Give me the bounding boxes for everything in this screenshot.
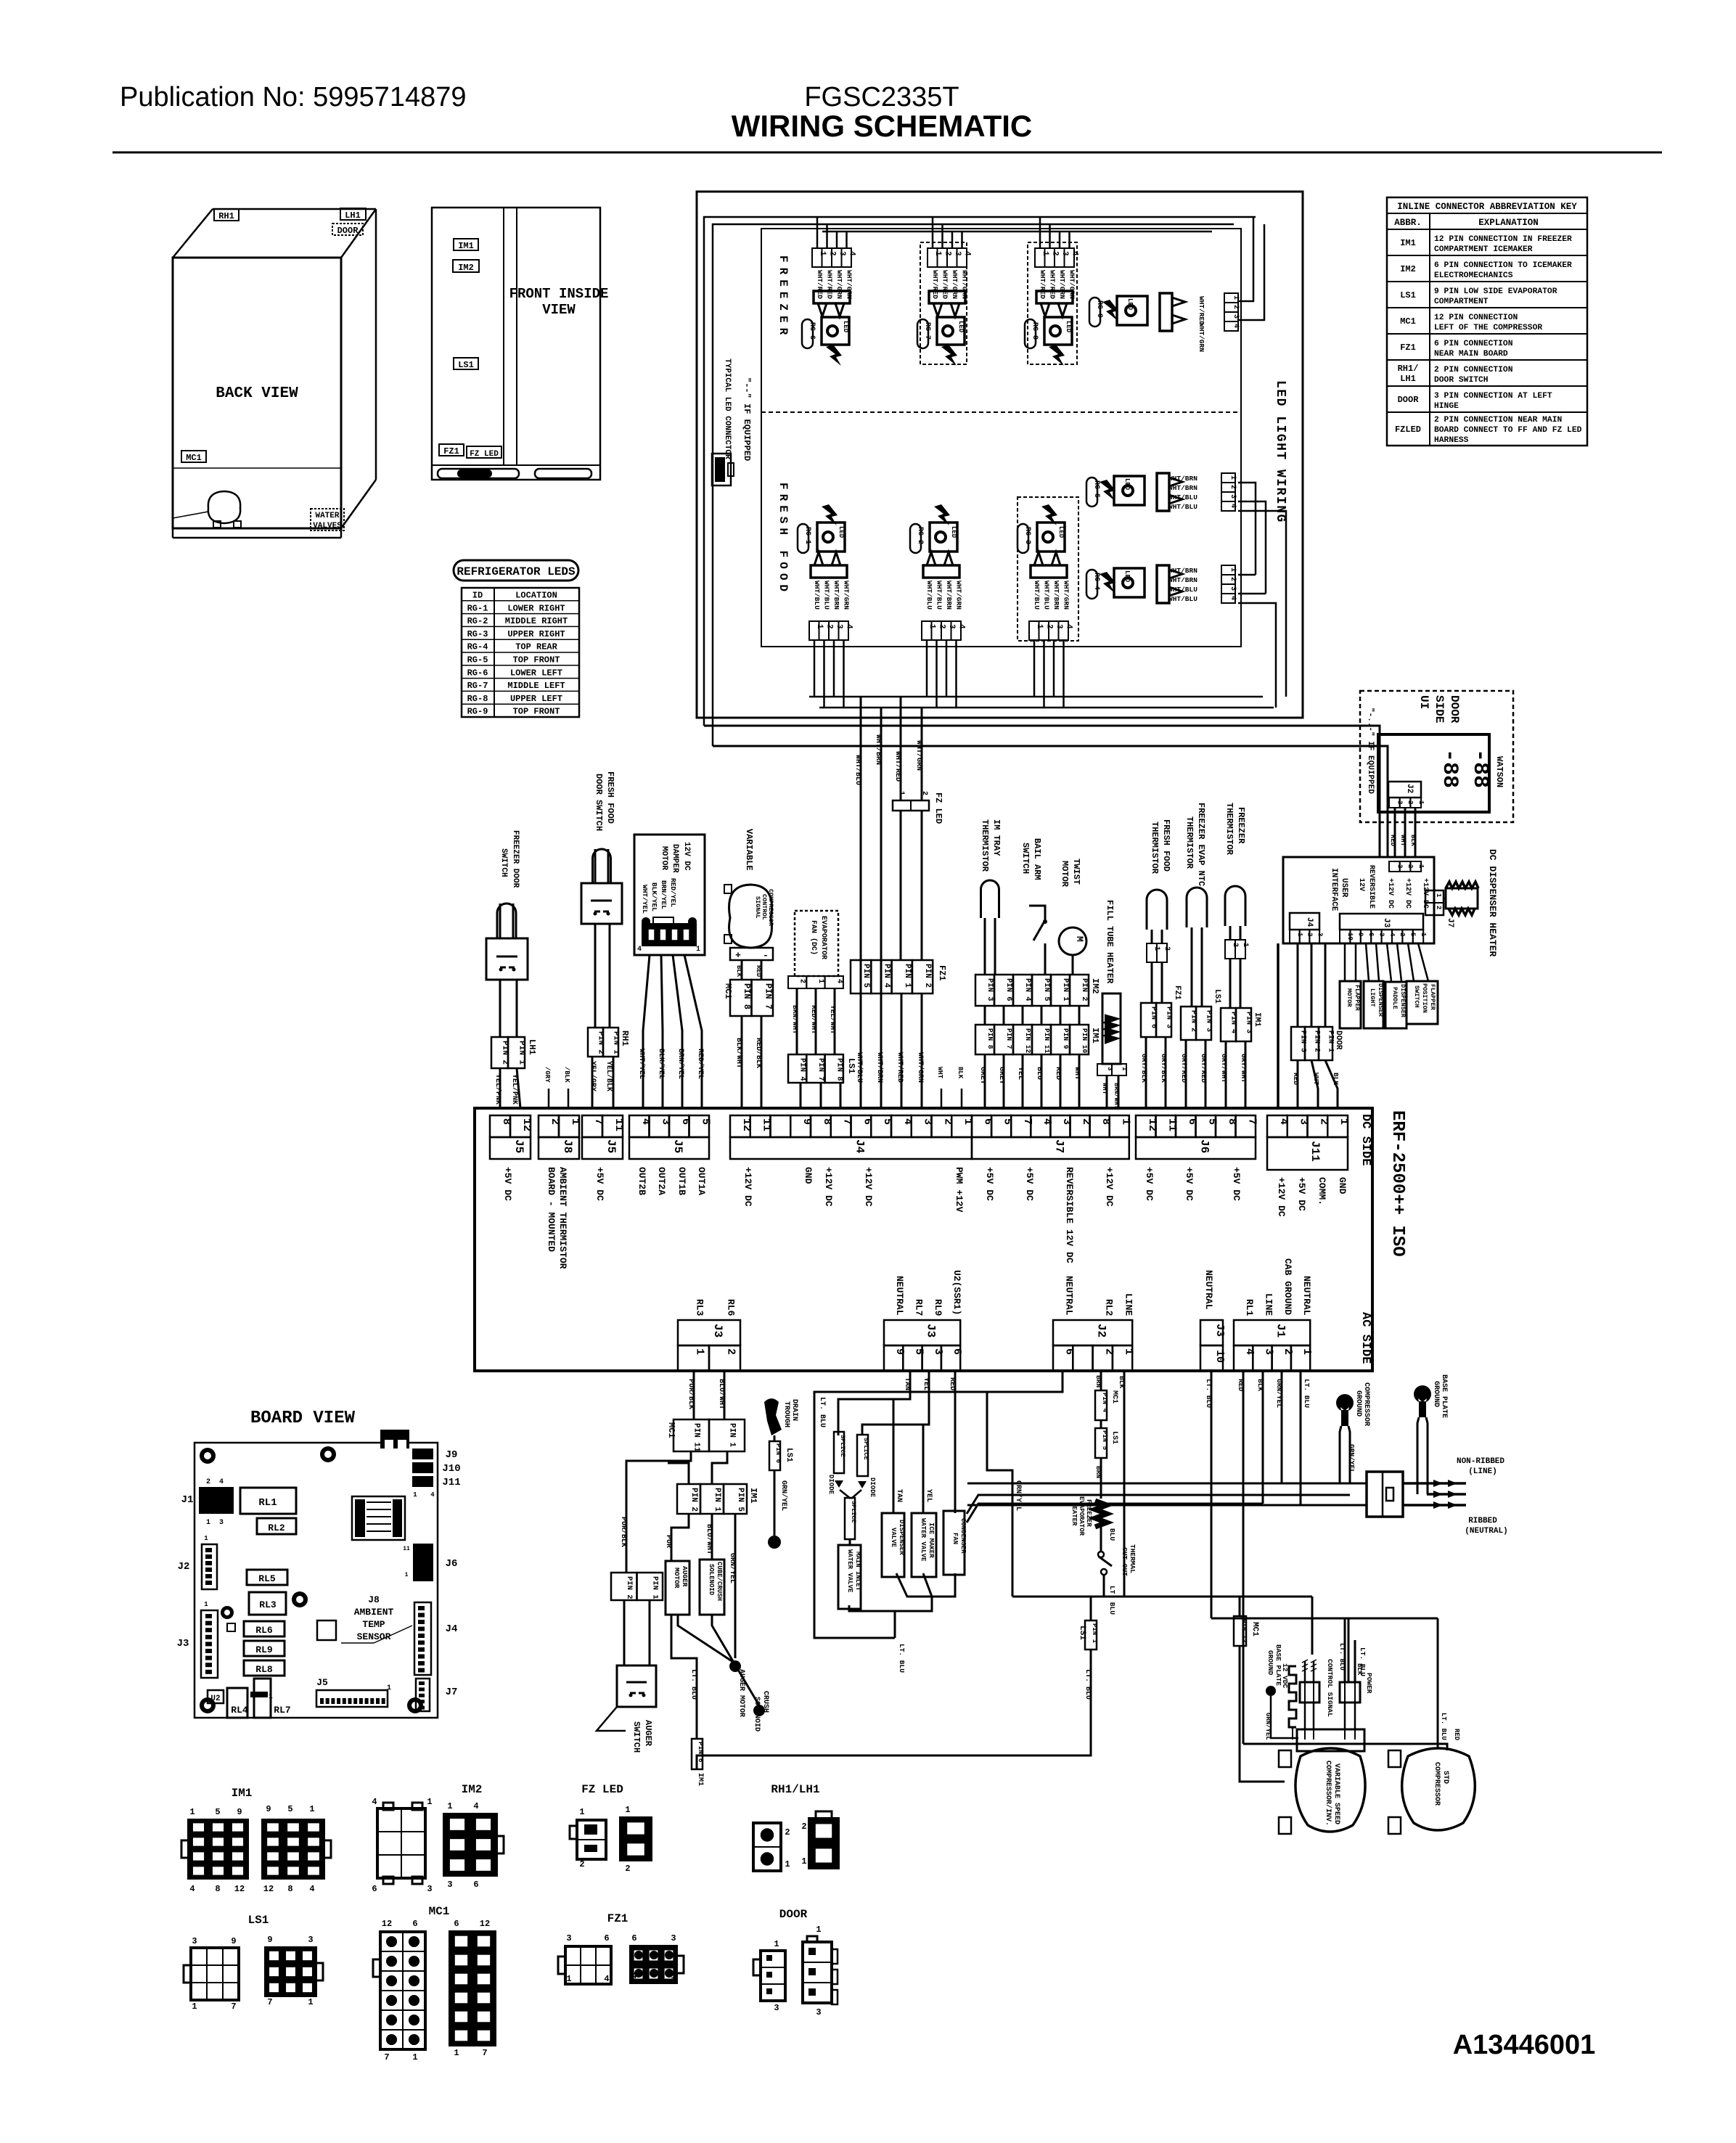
svg-text:SOLENOID: SOLENOID bbox=[753, 1697, 761, 1732]
svg-text:INTERFACE: INTERFACE bbox=[1330, 868, 1338, 911]
svg-text:FREEZER DOOR: FREEZER DOOR bbox=[511, 830, 520, 888]
svg-text:RH1: RH1 bbox=[218, 211, 234, 221]
svg-text:WHT/BLU: WHT/BLU bbox=[823, 581, 831, 610]
svg-text:WHT/GRN: WHT/GRN bbox=[1063, 581, 1070, 610]
wire MC1 pin11 to auger pins bbox=[626, 1451, 691, 1573]
svg-text:7: 7 bbox=[1245, 1118, 1258, 1125]
svg-text:A13446001: A13446001 bbox=[1453, 2030, 1596, 2060]
svg-text:4: 4 bbox=[1070, 251, 1078, 256]
auger motor terminal bbox=[678, 1615, 735, 1663]
svg-text:PUR: PUR bbox=[664, 1535, 672, 1548]
RG-1 label oval bbox=[798, 524, 808, 553]
svg-text:WHT/BLU: WHT/BLU bbox=[855, 1052, 864, 1083]
svg-text:1: 1 bbox=[569, 1118, 581, 1125]
led wiring top bus bbox=[802, 216, 1256, 218]
compressor ground bbox=[1336, 1394, 1354, 1411]
svg-text:+5V DC: +5V DC bbox=[594, 1167, 605, 1201]
svg-text:GRY/RED: GRY/RED bbox=[1200, 1054, 1208, 1083]
U2 bbox=[208, 1690, 224, 1703]
svg-text:1: 1 bbox=[785, 1859, 790, 1869]
svg-text:RG-6: RG-6 bbox=[808, 322, 816, 340]
svg-text:VALVE: VALVE bbox=[890, 1528, 897, 1548]
svg-text:RH1/: RH1/ bbox=[1398, 364, 1419, 374]
led wiring bottom bus bbox=[809, 696, 1263, 698]
svg-text:DC SIDE: DC SIDE bbox=[1359, 1114, 1372, 1165]
svg-text:GROUND: GROUND bbox=[1354, 1390, 1362, 1417]
wire pur bbox=[671, 1514, 689, 1561]
svg-text:1: 1 bbox=[189, 1807, 195, 1817]
connector J3 bbox=[678, 1320, 740, 1345]
svg-text:RED: RED bbox=[1292, 1073, 1300, 1085]
svg-text:PIN 1: PIN 1 bbox=[612, 1031, 621, 1054]
wires from board to splices bbox=[838, 1371, 910, 1435]
RG-5 connector block bbox=[1157, 473, 1169, 511]
RG-3 connector block bbox=[1031, 565, 1067, 578]
svg-text:12: 12 bbox=[234, 1884, 245, 1894]
svg-text:1: 1 bbox=[696, 946, 700, 954]
svg-text:1: 1 bbox=[1119, 1118, 1131, 1125]
svg-text:J1: J1 bbox=[181, 1494, 194, 1506]
svg-text:8: 8 bbox=[287, 1884, 292, 1894]
svg-text:WHT/RED: WHT/RED bbox=[896, 1052, 904, 1083]
svg-text:LS1: LS1 bbox=[1213, 989, 1221, 1004]
front inside view outline bbox=[432, 208, 600, 480]
bottom lt.blu bus bbox=[697, 1650, 1091, 1769]
condenser fan to right bus bbox=[967, 1495, 1350, 1514]
svg-text:J3: J3 bbox=[177, 1638, 189, 1650]
svg-text:POWER: POWER bbox=[1365, 1673, 1373, 1694]
thermal cut-out bbox=[1100, 1527, 1102, 1552]
svg-text:J1: J1 bbox=[1274, 1324, 1287, 1337]
svg-text:MOTOR: MOTOR bbox=[660, 846, 668, 870]
flapper motor box bbox=[1340, 981, 1361, 1028]
svg-text:WHT/BRN: WHT/BRN bbox=[1168, 576, 1197, 584]
svg-text:TOP REAR: TOP REAR bbox=[515, 642, 557, 652]
svg-text:RL6: RL6 bbox=[726, 1299, 737, 1316]
RG-3 label oval bbox=[1018, 524, 1028, 553]
svg-text:"--" IF EQUIPPED: "--" IF EQUIPPED bbox=[742, 377, 752, 461]
svg-text:GREY: GREY bbox=[978, 1067, 986, 1084]
svg-text:+: + bbox=[735, 950, 741, 961]
rg5 rg4 wires bbox=[1238, 483, 1256, 575]
svg-text:J2: J2 bbox=[1095, 1324, 1108, 1337]
svg-text:WHT/GRN: WHT/GRN bbox=[914, 740, 923, 771]
connector IM1 pins (auger group) bbox=[677, 1484, 700, 1514]
RG-6 connector strip bbox=[812, 248, 822, 267]
svg-text:RL7: RL7 bbox=[913, 1299, 924, 1316]
RG-6 LED box bbox=[822, 317, 849, 345]
svg-text:6: 6 bbox=[412, 1919, 417, 1929]
svg-text:12V: 12V bbox=[1357, 878, 1365, 891]
svg-text:RG-7: RG-7 bbox=[923, 322, 931, 340]
svg-text:3: 3 bbox=[192, 1936, 197, 1946]
fzled harness horizontal wires bbox=[704, 726, 1380, 857]
svg-text:7: 7 bbox=[384, 2052, 389, 2062]
svg-text:RG-5: RG-5 bbox=[1092, 480, 1100, 498]
svg-text:6: 6 bbox=[631, 1933, 636, 1943]
svg-text:RED: RED bbox=[1453, 1729, 1460, 1741]
svg-text:1: 1 bbox=[566, 1974, 571, 1984]
svg-text:BLU/WHT: BLU/WHT bbox=[717, 1379, 726, 1409]
svg-text:WHT/BRN: WHT/BRN bbox=[1168, 475, 1197, 483]
svg-text:5: 5 bbox=[215, 1807, 220, 1817]
svg-text:10: 10 bbox=[1213, 1350, 1226, 1363]
svg-text:1: 1 bbox=[447, 1801, 452, 1811]
svg-text:PIN 5: PIN 5 bbox=[736, 1488, 745, 1512]
svg-text:WHT: WHT bbox=[936, 1067, 943, 1079]
connector DOOR pins bbox=[1291, 1027, 1305, 1060]
svg-text:PIN 3: PIN 3 bbox=[986, 978, 994, 1001]
svg-text:4: 4 bbox=[219, 1478, 224, 1486]
svg-text:4: 4 bbox=[189, 1884, 195, 1894]
svg-text:BRN: BRN bbox=[1094, 1466, 1102, 1478]
svg-text:WHT/BRN: WHT/BRN bbox=[1168, 484, 1197, 492]
svg-text:BLK: BLK bbox=[1256, 1379, 1264, 1391]
svg-text:PIN 1: PIN 1 bbox=[1061, 978, 1070, 1001]
svg-text:NON-RIBBED: NON-RIBBED bbox=[1457, 1457, 1504, 1466]
svg-text:3: 3 bbox=[671, 1933, 676, 1943]
svg-text:1: 1 bbox=[206, 1519, 210, 1527]
svg-text:RED/YEL: RED/YEL bbox=[669, 878, 677, 907]
svg-text:LED: LED bbox=[1057, 526, 1065, 538]
svg-text:SPLICE: SPLICE bbox=[850, 1501, 857, 1523]
center ic bbox=[317, 1620, 336, 1640]
user interface box bbox=[1283, 857, 1434, 943]
svg-text:GRY/WHT: GRY/WHT bbox=[1240, 1054, 1248, 1083]
svg-text:RL1: RL1 bbox=[258, 1497, 277, 1509]
svg-text:J2: J2 bbox=[1405, 784, 1414, 793]
svg-text:AMBIENT: AMBIENT bbox=[354, 1607, 394, 1618]
svg-text:1: 1 bbox=[192, 2001, 197, 2012]
label RH1 bbox=[214, 209, 239, 221]
RG-5 LED box bbox=[1114, 476, 1145, 505]
svg-text:LINE: LINE bbox=[1263, 1293, 1274, 1316]
svg-text:WHT/BRN: WHT/BRN bbox=[1052, 581, 1060, 610]
RG-7 connector strip bbox=[928, 248, 938, 267]
svg-text:2: 2 bbox=[625, 1864, 630, 1874]
svg-text:BLK: BLK bbox=[1356, 1663, 1363, 1676]
svg-text:OUT2A: OUT2A bbox=[656, 1167, 667, 1195]
svg-text:BLK: BLK bbox=[1332, 1073, 1340, 1085]
svg-text:RL7: RL7 bbox=[274, 1705, 290, 1716]
connector J1 bbox=[1234, 1320, 1310, 1345]
svg-text:WHT/BLU: WHT/BLU bbox=[925, 581, 933, 610]
svg-text:1: 1 bbox=[671, 1971, 676, 1981]
RG-2 label oval bbox=[910, 524, 921, 553]
svg-text:THERMAL: THERMAL bbox=[1129, 1544, 1137, 1573]
svg-text:WHT/GRN: WHT/GRN bbox=[1058, 270, 1066, 299]
svg-text:REFRIGERATOR LEDS: REFRIGERATOR LEDS bbox=[456, 565, 576, 578]
svg-text:FRESH FOOD: FRESH FOOD bbox=[605, 771, 615, 824]
svg-text:LEFT OF THE COMPRESSOR: LEFT OF THE COMPRESSOR bbox=[1434, 324, 1542, 332]
svg-text:3: 3 bbox=[1232, 314, 1240, 319]
svg-text:INLINE CONNECTOR ABBREVIATION: INLINE CONNECTOR ABBREVIATION KEY bbox=[1397, 202, 1577, 212]
svg-text:PIN 10: PIN 10 bbox=[1081, 1028, 1089, 1054]
valve bottom wires bbox=[849, 1605, 895, 1638]
svg-text:RG-4: RG-4 bbox=[1092, 573, 1100, 590]
svg-text:J2: J2 bbox=[178, 1561, 190, 1573]
connector J6 bbox=[1136, 1115, 1156, 1137]
svg-text:RG-2: RG-2 bbox=[467, 616, 488, 626]
svg-text:LS1: LS1 bbox=[785, 1448, 793, 1462]
RG-7 bolt bbox=[941, 345, 957, 366]
svg-text:FZLED: FZLED bbox=[1395, 425, 1421, 435]
svg-text:WHT: WHT bbox=[1312, 1073, 1320, 1085]
svg-text:4: 4 bbox=[372, 1797, 377, 1807]
svg-text:RG-4: RG-4 bbox=[467, 642, 488, 652]
svg-text:IM TRAY: IM TRAY bbox=[991, 819, 1002, 856]
RG-8 connector strip bbox=[1035, 248, 1045, 267]
svg-text:12V DC: 12V DC bbox=[682, 842, 691, 871]
svg-text:BOARD VIEW: BOARD VIEW bbox=[250, 1409, 356, 1428]
svg-text:DOOR SWITCH: DOOR SWITCH bbox=[594, 774, 604, 831]
power plug bbox=[1367, 1472, 1403, 1517]
svg-text:LED: LED bbox=[957, 321, 965, 333]
svg-text:RG-8: RG-8 bbox=[467, 694, 488, 704]
svg-text:SIGNAL: SIGNAL bbox=[754, 896, 761, 919]
svg-text:3: 3 bbox=[308, 1935, 313, 1945]
svg-text:J5: J5 bbox=[605, 1139, 618, 1153]
svg-text:WHT/GRN: WHT/GRN bbox=[951, 270, 959, 299]
plug prongs bbox=[1403, 1482, 1466, 1485]
led harness left drop bbox=[704, 217, 802, 726]
svg-text:BLK: BLK bbox=[1409, 835, 1417, 847]
svg-text:UPPER LEFT: UPPER LEFT bbox=[510, 694, 562, 704]
svg-text:FAN (DC): FAN (DC) bbox=[809, 920, 818, 955]
svg-text:1: 1 bbox=[816, 979, 824, 983]
splice 2 bbox=[857, 1435, 868, 1476]
svg-text:J3: J3 bbox=[1382, 918, 1391, 928]
J7 connector bbox=[416, 1679, 430, 1711]
svg-text:J5: J5 bbox=[316, 1677, 328, 1688]
svg-text:2: 2 bbox=[1163, 946, 1171, 951]
svg-text:TOP FRONT: TOP FRONT bbox=[513, 707, 560, 717]
svg-text:PIN 1: PIN 1 bbox=[650, 1576, 659, 1599]
connector RH1 pins bbox=[588, 1028, 603, 1057]
svg-text:RG-7: RG-7 bbox=[467, 681, 488, 691]
svg-text:4: 4 bbox=[1229, 504, 1237, 508]
svg-text:IM2: IM2 bbox=[1090, 978, 1100, 994]
svg-text:J4: J4 bbox=[1305, 917, 1314, 927]
svg-text:PIN 6: PIN 6 bbox=[1004, 978, 1013, 1001]
top middle connector bbox=[380, 1430, 409, 1449]
svg-text:4: 4 bbox=[835, 979, 843, 983]
svg-text:YEL: YEL bbox=[925, 1489, 933, 1502]
svg-text:3: 3 bbox=[427, 1884, 432, 1894]
svg-text:RED: RED bbox=[1054, 1067, 1062, 1080]
svg-text:7: 7 bbox=[231, 2001, 236, 2012]
svg-text:BOARD CONNECT TO FF AND FZ LED: BOARD CONNECT TO FF AND FZ LED bbox=[1434, 426, 1582, 435]
svg-text:DOOR: DOOR bbox=[1398, 395, 1420, 405]
svg-text:1: 1 bbox=[801, 1856, 806, 1867]
svg-text:TAN: TAN bbox=[903, 1377, 911, 1390]
svg-text:MC1: MC1 bbox=[429, 1905, 450, 1918]
svg-text:LOCATION: LOCATION bbox=[515, 591, 557, 601]
svg-text:RED/BLK: RED/BLK bbox=[754, 1038, 763, 1068]
svg-text:PUR/BLK: PUR/BLK bbox=[687, 1379, 695, 1409]
svg-text:DIODE: DIODE bbox=[827, 1475, 835, 1495]
svg-text:ELECTROMECHANICS: ELECTROMECHANICS bbox=[1434, 271, 1513, 280]
RG-8 connector block bbox=[1036, 291, 1073, 303]
svg-text:GROUND: GROUND bbox=[1266, 1650, 1274, 1676]
svg-text:3: 3 bbox=[1316, 933, 1323, 936]
flapper position switch box bbox=[1407, 981, 1438, 1024]
svg-text:4: 4 bbox=[309, 1884, 314, 1894]
svg-text:RL4: RL4 bbox=[231, 1705, 248, 1716]
svg-text:HARNESS: HARNESS bbox=[1434, 436, 1469, 445]
svg-text:+5V DC: +5V DC bbox=[984, 1167, 995, 1201]
svg-text:SIDE: SIDE bbox=[1433, 695, 1446, 723]
svg-text:3 PIN CONNECTION AT LEFT: 3 PIN CONNECTION AT LEFT bbox=[1434, 392, 1552, 401]
svg-text:J3: J3 bbox=[925, 1324, 938, 1337]
RG-1 connector strip bbox=[809, 621, 819, 640]
svg-text:ICE MAKER: ICE MAKER bbox=[928, 1523, 935, 1558]
svg-text:1: 1 bbox=[1338, 1118, 1350, 1125]
svg-text:YEL/WHT: YEL/WHT bbox=[829, 1005, 837, 1034]
svg-text:FILL TUBE HEATER: FILL TUBE HEATER bbox=[1105, 900, 1115, 984]
label IM2 bbox=[453, 260, 479, 272]
svg-text:FGSC2335T: FGSC2335T bbox=[804, 82, 959, 112]
svg-text:PIN 2: PIN 2 bbox=[625, 1576, 634, 1599]
wire UI to J11 pin4 bbox=[1277, 943, 1280, 1108]
svg-text:RL3: RL3 bbox=[259, 1599, 277, 1610]
svg-text:FZ1: FZ1 bbox=[937, 965, 947, 981]
long wires from AC connectors down bbox=[1211, 1371, 1213, 1618]
svg-text:(LINE): (LINE) bbox=[1468, 1467, 1497, 1476]
svg-text:1: 1 bbox=[625, 1805, 630, 1815]
svg-text:LT. BLU: LT. BLU bbox=[1108, 1586, 1116, 1615]
svg-text:PIN 9: PIN 9 bbox=[1062, 1028, 1070, 1049]
svg-text:FREEZER: FREEZER bbox=[777, 255, 790, 340]
svg-text:COMM.: COMM. bbox=[1317, 1177, 1327, 1205]
svg-text:PIN 3: PIN 3 bbox=[1245, 1012, 1253, 1033]
svg-text:LED: LED bbox=[1123, 478, 1131, 491]
connector J3 (UI) bbox=[1340, 914, 1423, 930]
UI J3 wires to flapper components bbox=[1344, 943, 1346, 981]
svg-text:IM1: IM1 bbox=[1090, 1028, 1100, 1044]
svg-text:CUBE/CRUSH: CUBE/CRUSH bbox=[716, 1562, 723, 1601]
svg-text:GRN/YEL: GRN/YEL bbox=[1264, 1713, 1272, 1740]
RG-1 LED box bbox=[817, 523, 845, 552]
svg-text:ID: ID bbox=[472, 591, 483, 601]
svg-text:3: 3 bbox=[932, 1348, 944, 1355]
svg-text:OUT1A: OUT1A bbox=[696, 1167, 707, 1195]
connector FZ1 pins bbox=[851, 960, 871, 993]
svg-text:6: 6 bbox=[454, 1919, 459, 1929]
freezer evaporator heater coil bbox=[1095, 1501, 1107, 1527]
svg-text:WIRING SCHEMATIC: WIRING SCHEMATIC bbox=[732, 109, 1033, 143]
connector J5 bbox=[490, 1115, 510, 1137]
svg-text:SWITCH: SWITCH bbox=[499, 848, 508, 877]
connector LS1 pin6 (drain) bbox=[769, 1441, 780, 1470]
svg-text:LH1: LH1 bbox=[1400, 374, 1416, 384]
RG-5 label oval bbox=[1086, 478, 1097, 507]
svg-text:WHT/RED: WHT/RED bbox=[893, 751, 902, 782]
svg-text:LOWER LEFT: LOWER LEFT bbox=[510, 668, 562, 678]
svg-text:9: 9 bbox=[231, 1936, 236, 1946]
svg-text:LT. BLU: LT. BLU bbox=[1440, 1713, 1447, 1740]
RG-9 connector block bbox=[1160, 293, 1172, 331]
svg-text:3: 3 bbox=[566, 1933, 571, 1943]
RG-5 connector strip bbox=[1221, 473, 1235, 483]
svg-text:LT. BLU: LT. BLU bbox=[689, 1669, 697, 1700]
svg-text:DOOR: DOOR bbox=[1334, 1030, 1343, 1050]
connector J4 bbox=[730, 1115, 750, 1137]
svg-text:GRN/YEL: GRN/YEL bbox=[1348, 1444, 1356, 1473]
svg-text:1: 1 bbox=[1417, 800, 1425, 805]
crush solenoid terminal bbox=[712, 1615, 759, 1705]
svg-text:6: 6 bbox=[473, 1880, 478, 1890]
svg-text:PIN 1: PIN 1 bbox=[728, 1423, 737, 1447]
svg-text:PIN 2: PIN 2 bbox=[1080, 978, 1089, 1001]
main inlet water valve bbox=[838, 1545, 861, 1609]
svg-text:LH1: LH1 bbox=[345, 210, 361, 221]
svg-text:IM2: IM2 bbox=[458, 263, 474, 273]
svg-text:IM1: IM1 bbox=[458, 241, 474, 251]
svg-text:LT. BLU: LT. BLU bbox=[1303, 1379, 1311, 1408]
svg-text:J7: J7 bbox=[1052, 1139, 1065, 1153]
svg-text:WHT/BLU: WHT/BLU bbox=[1168, 586, 1197, 594]
svg-text:COMPARTMENT: COMPARTMENT bbox=[1434, 298, 1489, 306]
svg-text:PIN 3: PIN 3 bbox=[1205, 1010, 1213, 1032]
svg-text:LS1: LS1 bbox=[1078, 1626, 1086, 1640]
svg-text:DOOR: DOOR bbox=[779, 1908, 808, 1921]
J6 connector bbox=[413, 1544, 433, 1581]
RG-4 connector strip bbox=[1221, 565, 1235, 575]
svg-text:LS1: LS1 bbox=[846, 1058, 856, 1074]
svg-text:WATER: WATER bbox=[315, 512, 339, 520]
damper motor bbox=[634, 835, 705, 955]
svg-text:RED: RED bbox=[755, 965, 762, 978]
svg-text:MC1: MC1 bbox=[723, 983, 733, 999]
svg-text:IM1: IM1 bbox=[748, 1488, 758, 1504]
svg-text:4: 4 bbox=[962, 251, 971, 256]
svg-text:3: 3 bbox=[219, 1519, 224, 1527]
svg-text:PIN 1: PIN 1 bbox=[1327, 1030, 1335, 1052]
svg-text:WHT/RED: WHT/RED bbox=[816, 270, 824, 299]
dispenser paddle box bbox=[1385, 982, 1407, 1028]
svg-text:YEL/BLK: YEL/BLK bbox=[605, 1061, 613, 1091]
wire grn/yel from IM1 pin5 bbox=[734, 1514, 737, 1658]
svg-text:WHT/BRN: WHT/BRN bbox=[945, 581, 953, 610]
watson display box bbox=[1378, 734, 1489, 812]
svg-text:COMPRESSOR/INV.: COMPRESSOR/INV. bbox=[1324, 1761, 1332, 1826]
svg-text:LIGHT: LIGHT bbox=[1369, 988, 1376, 1007]
svg-text:NEUTRAL: NEUTRAL bbox=[1301, 1276, 1312, 1316]
left loop wire lt.blu bbox=[814, 1371, 1063, 1638]
svg-text:1: 1 bbox=[309, 1804, 314, 1814]
svg-text:VARIABLE: VARIABLE bbox=[744, 829, 754, 871]
connector IM1 pins (row) bbox=[975, 1025, 994, 1054]
svg-text:LT. BLU: LT. BLU bbox=[818, 1397, 826, 1427]
svg-text:MC1: MC1 bbox=[666, 1422, 676, 1438]
svg-text:J11: J11 bbox=[1309, 1141, 1322, 1162]
svg-text:DC DISPENSER HEATER: DC DISPENSER HEATER bbox=[1487, 849, 1498, 956]
svg-text:LS1: LS1 bbox=[1400, 290, 1416, 300]
svg-text:WHT/RED: WHT/RED bbox=[1049, 270, 1057, 299]
svg-text:COMPRESSOR: COMPRESSOR bbox=[1433, 1762, 1441, 1806]
abbreviation key table bbox=[1387, 197, 1587, 446]
RG-6 label oval bbox=[802, 319, 813, 348]
svg-text:4: 4 bbox=[957, 624, 965, 629]
svg-text:5: 5 bbox=[699, 1118, 711, 1125]
svg-text:2: 2 bbox=[1229, 577, 1237, 581]
RG-4 label oval bbox=[1086, 570, 1097, 599]
svg-text:DIODE: DIODE bbox=[869, 1478, 876, 1498]
svg-text:7: 7 bbox=[267, 1997, 272, 2007]
svg-text:STD: STD bbox=[1441, 1771, 1449, 1784]
svg-text:+5V DC: +5V DC bbox=[1024, 1167, 1035, 1201]
